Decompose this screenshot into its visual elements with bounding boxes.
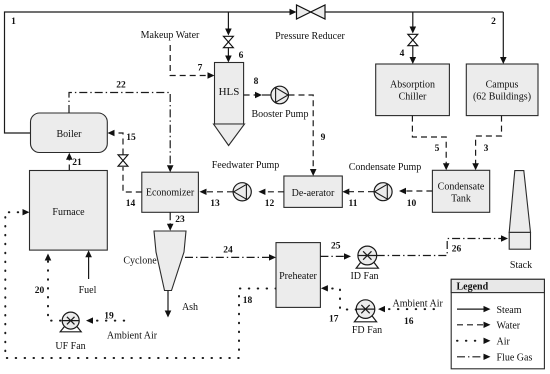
wire 25 preheater to ID fan (320, 253, 351, 259)
svg-text:Fuel: Fuel (79, 285, 97, 296)
svg-text:26: 26 (452, 245, 462, 255)
svg-text:Steam: Steam (497, 305, 522, 316)
svg-text:Chiller: Chiller (399, 92, 427, 103)
legend water entry (457, 321, 521, 332)
node label 1 (11, 17, 16, 27)
node label 5 (435, 144, 440, 154)
svg-text:25: 25 (331, 242, 341, 252)
node label 16 (404, 317, 414, 327)
svg-text:4: 4 (400, 49, 405, 59)
svg-text:2: 2 (491, 17, 496, 27)
wire 5 chiller to condensate tank (412, 116, 449, 171)
wire 10 tank to condensate pump (399, 188, 432, 194)
legend box (451, 279, 544, 369)
box de-aerator (284, 176, 342, 207)
wire 24 cyclone flue gas to preheater (185, 254, 276, 260)
node label 14 (126, 199, 136, 209)
pump condensate pump (374, 183, 392, 201)
node label 19 (104, 312, 114, 322)
wire 20 UF fan to furnace (45, 254, 61, 321)
wire 12 de-aerator to feedwater pump (258, 189, 284, 195)
wire 2 to campus (500, 12, 507, 64)
svg-text:6: 6 (239, 51, 244, 61)
svg-text:9: 9 (321, 133, 326, 143)
svg-text:17: 17 (329, 315, 339, 325)
node label 7 (198, 64, 203, 74)
svg-text:Economizer: Economizer (146, 188, 195, 199)
svg-text:21: 21 (72, 158, 82, 168)
legend flue gas entry (457, 353, 532, 364)
svg-text:23: 23 (175, 215, 185, 225)
wire 19 ambient air to UF fan (86, 317, 131, 323)
wire 9 pump to de-aerator (289, 95, 317, 176)
node label 6 (239, 51, 244, 61)
svg-text:Campus: Campus (486, 80, 519, 91)
wire steam main after reducer (325, 11, 503, 13)
svg-text:Booster Pump: Booster Pump (252, 109, 309, 120)
fan UF fan (55, 312, 85, 352)
svg-text:Stack: Stack (510, 260, 532, 271)
node label 12 (265, 199, 275, 209)
svg-text:15: 15 (126, 133, 136, 143)
node label 9 (321, 133, 326, 143)
box furnace (30, 171, 108, 251)
svg-text:Tank: Tank (451, 194, 471, 205)
svg-text:7: 7 (198, 64, 203, 74)
wire 11 pump to de-aerator (342, 189, 374, 195)
wire 3 campus to condensate tank (472, 116, 501, 171)
wire 23 economizer to cyclone (167, 212, 174, 231)
valve on chiller line (408, 34, 418, 45)
svg-text:8: 8 (254, 77, 259, 87)
node label 17 (329, 315, 339, 325)
svg-text:Condensate Pump: Condensate Pump (349, 162, 422, 173)
svg-text:Water: Water (497, 321, 521, 332)
svg-text:Flue Gas: Flue Gas (497, 353, 533, 364)
svg-text:Ambient Air: Ambient Air (107, 331, 158, 342)
wire steam main line 1 (5, 9, 297, 133)
pump feedwater pump (233, 183, 251, 201)
svg-text:Ash: Ash (182, 302, 198, 313)
svg-text:20: 20 (35, 286, 45, 296)
svg-text:ID Fan: ID Fan (350, 271, 378, 282)
wire 17 FD fan to preheater (321, 285, 356, 309)
svg-text:Pressure Reducer: Pressure Reducer (275, 31, 345, 42)
vessel boiler (31, 113, 108, 153)
node label 21 (72, 158, 82, 168)
wire 15 valve to boiler (108, 130, 124, 155)
svg-text:11: 11 (349, 199, 358, 209)
node label 22 (116, 80, 126, 90)
vessel HLS (214, 63, 245, 146)
svg-text:Absorption: Absorption (390, 80, 435, 91)
valve on feedwater line (118, 155, 128, 166)
svg-text:14: 14 (126, 199, 136, 209)
wire 8 HLS to booster pump (244, 92, 271, 98)
svg-text:16: 16 (404, 317, 414, 327)
wire 16 ambient air to FD fan (378, 306, 438, 312)
svg-text:Condensate: Condensate (438, 182, 485, 193)
label ambient air left (107, 331, 158, 342)
svg-text:Preheater: Preheater (279, 271, 317, 282)
node label 26 (452, 245, 462, 255)
box campus (466, 64, 538, 116)
node label 15 (126, 133, 136, 143)
fan ID fan (350, 246, 378, 282)
svg-text:22: 22 (116, 80, 126, 90)
wire 26 ID fan to stack (377, 235, 508, 255)
svg-text:10: 10 (407, 199, 417, 209)
svg-text:Boiler: Boiler (57, 129, 83, 140)
svg-text:19: 19 (104, 312, 114, 322)
wire fuel into furnace (79, 250, 97, 296)
vessel stack (509, 171, 532, 271)
svg-text:FD Fan: FD Fan (352, 325, 382, 336)
box economizer (142, 172, 199, 212)
label makeup water (141, 30, 200, 41)
wire 6 to HLS (225, 12, 232, 63)
valve on HLS line (223, 36, 233, 47)
node label 8 (254, 77, 259, 87)
wire 4 to chiller (410, 12, 417, 64)
svg-text:5: 5 (435, 144, 440, 154)
wire 7 makeup water to HLS (170, 45, 214, 79)
vessel cyclone (123, 231, 186, 291)
svg-text:Legend: Legend (457, 281, 489, 292)
valve pressure reducer (275, 5, 345, 42)
node label 25 (331, 242, 341, 252)
svg-text:Cyclone: Cyclone (123, 256, 157, 267)
svg-text:Furnace: Furnace (52, 207, 85, 218)
node label 23 (175, 215, 185, 225)
svg-text:Feedwater Pump: Feedwater Pump (212, 160, 280, 171)
node label 3 (484, 144, 489, 154)
pump booster pump (252, 86, 309, 120)
legend steam entry (457, 305, 522, 316)
svg-text:12: 12 (265, 199, 275, 209)
svg-text:Ambient Air: Ambient Air (393, 299, 444, 310)
box preheater (276, 243, 320, 308)
box absorption chiller (376, 64, 450, 116)
fan FD fan (352, 300, 382, 336)
box condensate tank (432, 170, 489, 212)
node label 10 (407, 199, 417, 209)
wire 13 pump to economizer (200, 189, 234, 195)
node label 18 (243, 296, 253, 306)
svg-text:1: 1 (11, 17, 16, 27)
wire 14 economizer to valve (123, 167, 142, 192)
svg-text:De-aerator: De-aerator (292, 188, 335, 199)
label feedwater pump (212, 160, 280, 171)
node label 24 (223, 246, 233, 256)
wire 22 boiler flue gas to economizer (69, 93, 174, 173)
svg-text:Makeup Water: Makeup Water (141, 30, 200, 41)
svg-text:3: 3 (484, 144, 489, 154)
node label 4 (400, 49, 405, 59)
node label 13 (210, 199, 220, 209)
svg-text:18: 18 (243, 296, 253, 306)
wire 18 preheater air to furnace (5, 209, 276, 358)
svg-text:13: 13 (210, 199, 220, 209)
label ambient air right (393, 299, 444, 310)
node label 20 (35, 286, 45, 296)
node label 11 (349, 199, 358, 209)
svg-text:(62 Buildings): (62 Buildings) (473, 92, 531, 103)
svg-text:UF Fan: UF Fan (55, 341, 85, 352)
svg-text:Air: Air (497, 337, 511, 348)
svg-text:HLS: HLS (219, 86, 240, 98)
legend air entry (457, 337, 511, 348)
node label 2 (491, 17, 496, 27)
svg-text:24: 24 (223, 246, 233, 256)
wire ash out of cyclone (165, 291, 198, 318)
label condensate pump (349, 162, 422, 173)
wire 21 furnace to boiler (66, 153, 73, 171)
